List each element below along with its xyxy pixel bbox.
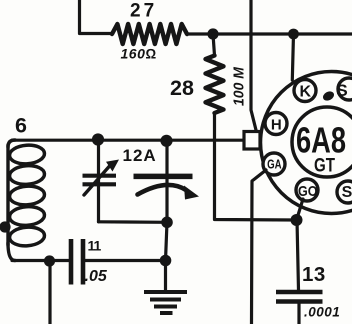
svg-text:.0001: .0001 xyxy=(304,305,340,320)
svg-text:H: H xyxy=(271,117,282,134)
svg-text:S: S xyxy=(336,81,347,100)
resistor 28 zigzag xyxy=(206,56,224,114)
coil 6 left spine xyxy=(6,145,9,245)
wire GO lead to node xyxy=(297,199,304,220)
pin S bottom circle xyxy=(337,181,352,203)
pin GO circle xyxy=(296,179,318,201)
wire top-left vertical into R27 xyxy=(80,0,113,34)
wire R27 to node xyxy=(187,32,213,35)
svg-text:S: S xyxy=(342,184,352,201)
wire cap 11 to ground node xyxy=(85,259,166,262)
grid cap connector square xyxy=(244,132,260,150)
svg-text:GA: GA xyxy=(267,157,282,172)
pin S top circle xyxy=(338,78,352,100)
wire top horizontal to right edge xyxy=(213,32,352,35)
tuning cap stator plate xyxy=(134,174,193,180)
resistor 27 zigzag xyxy=(112,24,187,44)
coil 6 top hook into top wire xyxy=(8,140,15,147)
capacitor 13 bottom lead xyxy=(297,304,300,324)
svg-text:6A8: 6A8 xyxy=(296,120,346,161)
node dot AVC tap xyxy=(44,255,55,266)
tube 6A8 outer circle xyxy=(261,72,352,214)
tuning cap lead xyxy=(165,141,168,222)
resistor 28 top lead xyxy=(213,34,215,56)
svg-text:GO: GO xyxy=(298,183,318,200)
svg-text:27: 27 xyxy=(130,1,157,22)
capacitor 11 plates xyxy=(69,239,74,285)
pin key marker xyxy=(321,90,335,103)
node dot above tube xyxy=(288,29,299,40)
ground symbol xyxy=(144,292,187,313)
node dot tuning cap top xyxy=(160,135,172,147)
coil 6 bottom hook into bottom wire xyxy=(8,243,15,261)
svg-text:GT: GT xyxy=(314,156,335,177)
svg-text:12A: 12A xyxy=(123,146,157,165)
trimmer cap plates xyxy=(83,174,117,178)
trimmer arrow xyxy=(84,166,110,196)
capacitor 13 plates xyxy=(276,290,323,295)
wire coil bottom to cap 11 xyxy=(12,259,69,262)
svg-text:.05: .05 xyxy=(85,268,108,285)
svg-text:6: 6 xyxy=(15,114,27,138)
wire main horizontal to grid cap xyxy=(12,139,244,142)
tuning cap rotor curved arrow xyxy=(138,185,187,195)
pin H circle xyxy=(265,113,287,135)
svg-text:13: 13 xyxy=(302,263,326,286)
wire down from AVC tap xyxy=(48,261,51,324)
svg-text:160Ω: 160Ω xyxy=(121,46,157,62)
node dot top junction R27/R28 xyxy=(207,28,218,39)
trimmer cap 12A lead xyxy=(97,141,100,222)
trimmer bottom lead xyxy=(99,220,168,224)
svg-text:11: 11 xyxy=(88,238,102,254)
capacitor 13 top lead xyxy=(297,220,299,290)
resistor 28 bottom lead to node xyxy=(215,113,297,220)
node dot cap 13 junction xyxy=(291,214,303,226)
svg-text:28: 28 xyxy=(170,76,194,100)
wire grid-cap vertical from top xyxy=(251,0,256,130)
pin GA circle xyxy=(263,153,285,175)
wire GA lead down xyxy=(252,170,267,324)
svg-text:100 M: 100 M xyxy=(231,67,248,106)
node dot trimmer top xyxy=(92,133,104,145)
node dot ground junction xyxy=(160,255,172,267)
tube 6A8 inner circle xyxy=(292,107,352,177)
coil 6 loops xyxy=(9,144,45,247)
wire tuning cap node to ground node xyxy=(166,222,168,260)
svg-text:K: K xyxy=(300,84,312,101)
ground lead xyxy=(164,261,167,292)
node dot bottom of tuning cap xyxy=(161,217,173,229)
wire node to tube top xyxy=(292,34,293,80)
node dot coil tap left edge xyxy=(0,221,11,232)
pin K circle xyxy=(294,80,316,102)
